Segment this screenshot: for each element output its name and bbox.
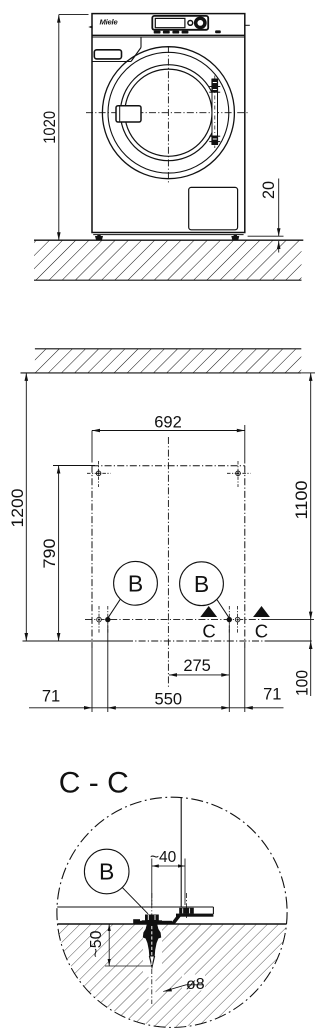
right foot bbox=[231, 236, 239, 240]
anchor plug in floor bbox=[143, 924, 161, 957]
detail boundary circle bbox=[57, 797, 287, 1027]
small indicator circle bbox=[188, 21, 193, 26]
dimension 100 bbox=[310, 620, 312, 696]
door hinge bbox=[212, 79, 218, 145]
detergent drawer bbox=[94, 50, 121, 59]
rear right bolt hole bbox=[236, 471, 241, 476]
anchor screw head bbox=[145, 915, 159, 921]
display window bbox=[155, 18, 185, 27]
centre line bbox=[167, 437, 169, 688]
panel buttons bbox=[154, 31, 161, 34]
section marker C left bbox=[200, 606, 217, 617]
machine footprint (dash-dot rectangle) bbox=[92, 465, 245, 467]
dimension 20 bbox=[278, 179, 280, 237]
machine front panel (section) bbox=[180, 798, 182, 908]
tick on right edge bbox=[245, 24, 250, 26]
svg-text:1020: 1020 bbox=[41, 111, 59, 144]
svg-text:71: 71 bbox=[42, 688, 60, 706]
front right bolt hole bbox=[235, 617, 240, 622]
svg-text:C - C: C - C bbox=[59, 767, 129, 800]
door centerline vertical bbox=[167, 46, 169, 183]
svg-text:275: 275 bbox=[183, 657, 211, 675]
control panel bottom lines bbox=[92, 34, 245, 36]
balloon B (detail) bbox=[84, 849, 129, 894]
dimension 275 bbox=[169, 674, 229, 676]
balloon B right bbox=[180, 562, 224, 606]
front left anchor point B bbox=[105, 617, 110, 622]
floor hatch (detail) bbox=[56, 924, 288, 1028]
detergent drawer panel edge bbox=[92, 61, 131, 63]
svg-text:ø8: ø8 bbox=[186, 976, 205, 993]
svg-text:~40: ~40 bbox=[150, 849, 177, 866]
screw tip bbox=[149, 956, 155, 970]
svg-text:550: 550 bbox=[155, 691, 183, 709]
svg-text:100: 100 bbox=[294, 670, 312, 696]
dimension 790 extension bbox=[53, 465, 95, 467]
balloon B left bbox=[114, 561, 158, 605]
bracket upper plate bbox=[176, 914, 213, 917]
anchor bracket lower plate bbox=[134, 921, 172, 924]
door handle bbox=[116, 106, 141, 122]
left foot bbox=[95, 236, 103, 240]
rear left bolt hole bbox=[96, 471, 101, 476]
svg-text:C: C bbox=[255, 621, 268, 642]
screw centerline bbox=[151, 893, 153, 924]
door centerline horizontal bbox=[86, 112, 250, 114]
svg-text:~50: ~50 bbox=[88, 930, 105, 957]
dimension 692 bbox=[92, 430, 245, 432]
section marker C right bbox=[253, 606, 270, 617]
svg-text:C: C bbox=[202, 621, 215, 642]
svg-text:1200: 1200 bbox=[9, 489, 27, 528]
wall (plan) bbox=[35, 349, 301, 373]
service switch bbox=[215, 30, 221, 33]
door circles bbox=[102, 47, 234, 179]
drain pump service panel bbox=[189, 187, 238, 229]
floor (elevation) bbox=[34, 240, 302, 280]
dimension 1020 extension line (machine top) bbox=[59, 14, 89, 16]
svg-text:1100: 1100 bbox=[293, 481, 311, 520]
svg-text:B: B bbox=[99, 859, 114, 885]
svg-text:71: 71 bbox=[263, 686, 281, 704]
floor surface line bbox=[58, 923, 287, 925]
label o8 bbox=[163, 985, 203, 992]
dimension 1200 bbox=[25, 373, 27, 641]
washing machine cabinet outline bbox=[92, 14, 245, 233]
svg-text:692: 692 bbox=[154, 413, 182, 431]
svg-text:790: 790 bbox=[41, 539, 59, 569]
control panel display frame bbox=[152, 16, 208, 30]
bracket Z-step bbox=[171, 915, 183, 924]
svg-text:B: B bbox=[128, 571, 143, 597]
dimension ~50 bbox=[108, 924, 110, 966]
program knob bbox=[194, 17, 207, 30]
dimension 1100 bbox=[310, 373, 312, 620]
dimension ~40 bbox=[151, 859, 153, 906]
svg-text:Miele: Miele bbox=[100, 18, 119, 27]
dimension 790 bbox=[58, 466, 60, 642]
front line bbox=[23, 640, 127, 642]
marker on left edge bbox=[88, 26, 92, 29]
svg-text:B: B bbox=[194, 571, 209, 597]
machine bottom (section) bbox=[57, 906, 213, 908]
dimension 1020 bbox=[58, 15, 60, 241]
svg-text:20: 20 bbox=[260, 181, 278, 199]
dimension 20 extension line bbox=[248, 235, 284, 237]
front left bolt hole bbox=[97, 617, 102, 622]
machine fixing screw head bbox=[179, 908, 194, 914]
bottom dimension extension lines bbox=[91, 648, 93, 712]
front right anchor point B bbox=[227, 617, 232, 622]
dimension line 71 / 550 / 71 bbox=[29, 707, 284, 709]
machine base bottom line bbox=[93, 234, 243, 236]
anchor line (dash-dot through bolts) bbox=[85, 619, 268, 621]
